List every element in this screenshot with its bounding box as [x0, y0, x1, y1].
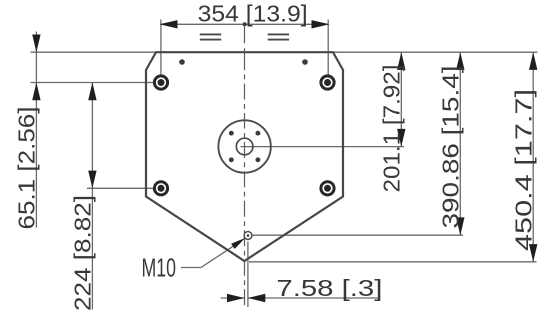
extension line: lower bolt-hole axis (left) — [87, 187, 154, 189]
bolt hole top-left — [153, 74, 169, 90]
svg-text:201.1 [7.92]: 201.1 [7.92] — [379, 65, 405, 193]
dimension line 450.4 vertical — [532, 52, 534, 262]
equality mark right — [268, 34, 289, 39]
arrow 65.1 top (down) — [32, 35, 40, 53]
hub bolt dot lower-right — [255, 157, 260, 162]
equality mark left — [200, 34, 221, 39]
dimension line 7.58 right segment — [248, 297, 380, 299]
dimension line 65.1 vertical — [35, 32, 37, 228]
extension line: hub centre axis (right) — [241, 146, 405, 148]
arrow 354 left — [160, 20, 178, 28]
svg-text:M10: M10 — [142, 253, 177, 283]
svg-text:224 [8.82]: 224 [8.82] — [70, 195, 96, 311]
bolt hole bottom-left — [153, 180, 169, 196]
node: centerline crossing dot on 354 dimension — [243, 22, 247, 26]
hub bolt dot lower-left — [229, 157, 234, 162]
dimension line 201.1 vertical — [400, 52, 402, 146]
extension line: M10 hole vertical (bottom) — [247, 242, 249, 308]
central hub outer circle — [218, 120, 270, 172]
extension line: upper bolt-hole axis (left) — [31, 82, 154, 84]
plate outline — [146, 52, 343, 261]
arrow 224 bottom (down) — [88, 171, 96, 189]
svg-text:354 [13.9]: 354 [13.9] — [198, 0, 308, 26]
small hole top-left — [179, 59, 185, 65]
arrow M10 leader — [231, 238, 245, 249]
extension line: top reference (right of plate) — [333, 51, 538, 53]
hub bolt dot upper-right — [255, 131, 260, 136]
hub bolt dot upper-left — [229, 131, 234, 136]
bolt hole top-right — [319, 74, 335, 90]
arrow 390.86 bottom (down) — [456, 217, 464, 235]
arrow 201.1 top (up) — [397, 52, 405, 70]
arrow 7.58 right (points left) — [248, 294, 265, 302]
svg-text:7.58 [.3]: 7.58 [.3] — [276, 275, 382, 301]
svg-text:390.86 [15.4]: 390.86 [15.4] — [438, 66, 464, 229]
arrow 354 right — [312, 20, 330, 28]
leader line M10 — [181, 245, 236, 268]
extension line: top reference (left of plate) — [31, 51, 157, 53]
small hole top-right — [302, 59, 308, 65]
extension line: left bolt column vertical — [160, 20, 162, 76]
arrow 390.86 top (up) — [456, 52, 464, 70]
extension line: bottom vertex axis (right) — [249, 261, 537, 263]
central hub bore circle — [236, 138, 253, 155]
arrow 201.1 bottom (down) — [397, 129, 405, 147]
M10 hole — [244, 232, 252, 240]
dimension line 224 vertical — [91, 83, 93, 310]
centerline vertical dash-dot — [244, 24, 246, 305]
svg-text:450.4 [17.7]: 450.4 [17.7] — [511, 89, 537, 251]
arrow 224 top (up) — [88, 83, 96, 101]
bolt hole bottom-right — [319, 180, 335, 196]
arrow 65.1 bottom (up) — [32, 83, 40, 101]
arrow 450.4 bottom (down) — [529, 244, 537, 262]
svg-text:65.1 [2.56]: 65.1 [2.56] — [14, 107, 40, 230]
extension line: M10 hole axis (right) — [253, 234, 464, 236]
extension line: right bolt column vertical — [327, 20, 329, 76]
arrow 450.4 top (up) — [529, 52, 537, 70]
dimension line 354 horizontal — [161, 23, 328, 25]
arrow 7.58 left (points right) — [227, 294, 244, 302]
dimension line 7.58 left segment — [221, 297, 245, 299]
dimension line 390.86 vertical — [459, 52, 461, 235]
